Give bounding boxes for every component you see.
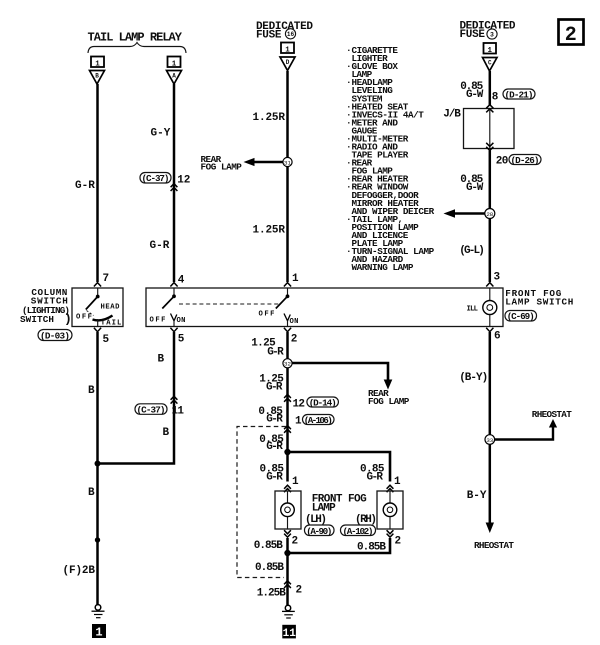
label FRONT FOG LAMP SWITCH <box>505 288 573 308</box>
svg-text:ON: ON <box>290 318 299 326</box>
svg-text:(A-106): (A-106) <box>304 415 333 426</box>
branch arrow to rear fog lamp <box>290 363 392 390</box>
svg-text:FOG LAMP: FOG LAMP <box>368 396 410 407</box>
svg-text:(A-90): (A-90) <box>306 526 332 537</box>
chevron out of switch col3 <box>284 328 291 332</box>
splice dot <box>95 537 100 542</box>
front fog lamp LH bulb <box>281 491 295 529</box>
wire label 0.85 G-R <box>259 434 284 453</box>
column switch box <box>72 288 123 327</box>
connector C-37 (lower) <box>135 404 167 416</box>
connector A-106 <box>303 415 335 426</box>
wire column 1 upper (terminal B to switch box) <box>96 84 99 282</box>
front fog lamp RH bulb <box>383 491 397 529</box>
RH lamp return wire <box>290 538 390 553</box>
page number box 2 <box>559 20 584 48</box>
svg-text:G-R: G-R <box>367 472 384 484</box>
connector C-69 <box>505 311 537 323</box>
svg-text:7: 7 <box>103 273 110 285</box>
svg-text:SWITCH: SWITCH <box>20 314 54 325</box>
svg-text:G-W: G-W <box>466 89 484 101</box>
svg-text:B: B <box>158 354 165 366</box>
svg-text:J/B: J/B <box>443 109 461 121</box>
svg-text:(A-102): (A-102) <box>343 526 374 537</box>
svg-text:RHEOSTAT: RHEOSTAT <box>474 540 514 551</box>
inline connector chevrons D-14 <box>284 394 291 401</box>
dashed bypass path <box>237 427 286 578</box>
svg-text:LAMP SWITCH: LAMP SWITCH <box>505 296 573 307</box>
connector chevron into switch <box>94 283 101 287</box>
svg-text:16: 16 <box>287 31 295 38</box>
wire through J/B <box>489 109 491 149</box>
chevron out of switch col2 <box>170 328 177 332</box>
svg-text:G-W: G-W <box>466 182 484 194</box>
svg-text:TAIL: TAIL <box>101 319 122 327</box>
svg-text:WARNING LAMP: WARNING LAMP <box>352 262 414 273</box>
wire column 3 to ground <box>286 538 289 605</box>
label REAR FOG LAMP <box>201 154 243 173</box>
branch arrow to rheostat <box>492 419 557 440</box>
connector chevron into switch <box>486 283 493 287</box>
wire column 5 upper (fuse 3 down) <box>489 71 492 105</box>
svg-text:OFF: OFF <box>150 317 166 325</box>
connector A-102 <box>341 525 376 537</box>
svg-text:(G-L): (G-L) <box>459 245 485 257</box>
svg-text:20: 20 <box>496 156 509 168</box>
wire label 1.25 G-R <box>259 374 284 394</box>
connector D-21 <box>503 89 535 100</box>
svg-text:1: 1 <box>488 47 493 55</box>
connector C-37 (upper) <box>140 173 171 185</box>
connector A-90 <box>305 525 335 537</box>
inline connector chevrons <box>284 581 291 588</box>
svg-text:3: 3 <box>490 32 494 39</box>
svg-text:28: 28 <box>486 211 493 218</box>
svg-text:(D-14): (D-14) <box>309 397 337 408</box>
svg-text:(LH): (LH) <box>305 514 327 526</box>
svg-text:1.25R: 1.25R <box>253 112 286 124</box>
svg-text:11: 11 <box>172 406 185 418</box>
svg-text:4: 4 <box>178 275 185 287</box>
arrowhead to rheostat (down) <box>486 523 494 534</box>
svg-text:OFF: OFF <box>259 311 275 319</box>
label DEDICATED FUSE 16 <box>256 21 313 42</box>
wire label 0.85 G-W <box>460 81 483 101</box>
ground reference box 1 <box>92 624 106 640</box>
svg-text:5: 5 <box>103 334 110 346</box>
svg-text:0.85B: 0.85B <box>255 562 284 574</box>
arrow to REAR FOG LAMP <box>244 158 285 166</box>
svg-text:FUSE: FUSE <box>256 30 282 42</box>
branch wire to RH lamp <box>288 452 391 482</box>
chevron out of switch col5 <box>486 328 493 332</box>
wire label 1.25 G-R <box>251 338 284 359</box>
connector D-14 <box>307 397 339 408</box>
svg-text:1.25B: 1.25B <box>257 588 286 600</box>
inline connector chevrons <box>171 184 178 191</box>
ground reference box 11 <box>282 625 296 640</box>
chevron out of column switch <box>94 328 101 332</box>
svg-text:G-R: G-R <box>266 414 283 426</box>
svg-text:1: 1 <box>172 60 177 68</box>
svg-text:FOG LAMP: FOG LAMP <box>201 162 243 173</box>
svg-text:0.85B: 0.85B <box>254 540 283 552</box>
splice node 31 <box>283 157 292 166</box>
connector chevron into switch <box>170 283 177 287</box>
svg-text:B-Y: B-Y <box>467 490 487 502</box>
svg-text:31: 31 <box>284 159 291 166</box>
svg-text:A: A <box>172 73 176 80</box>
labels OFF ON <box>150 317 186 326</box>
svg-text:G-R: G-R <box>266 472 283 484</box>
wire column 5 middle <box>489 151 492 283</box>
chevrons at J/B entry <box>486 105 493 113</box>
front fog lamp LH box <box>275 491 301 529</box>
svg-text:G-R: G-R <box>266 382 283 394</box>
terminal B (tail lamp relay, left) <box>90 57 105 85</box>
svg-text:(F)2B: (F)2B <box>63 565 96 577</box>
svg-text:(D-03): (D-03) <box>40 331 70 342</box>
labels OFF ON <box>259 311 299 327</box>
wire column 1 lower (switch to ground) <box>96 332 99 605</box>
svg-text:(RH): (RH) <box>355 514 377 526</box>
svg-text:B: B <box>163 427 170 439</box>
illumination lamp ILL <box>467 288 497 327</box>
svg-text:1: 1 <box>394 476 401 488</box>
splice node 32 <box>283 359 292 368</box>
ground symbol <box>92 605 105 618</box>
svg-text:(B-Y): (B-Y) <box>459 372 488 384</box>
front fog lamp switch box <box>146 288 503 327</box>
svg-text:2: 2 <box>296 585 303 597</box>
svg-text:C: C <box>488 60 492 67</box>
svg-text:12: 12 <box>177 175 190 187</box>
svg-text:G-R: G-R <box>266 441 283 453</box>
chevrons into RH lamp <box>387 485 394 492</box>
svg-text:(C-37): (C-37) <box>137 405 166 416</box>
wire column 5 lower (switch to rheostat) <box>489 332 492 523</box>
label FRONT FOG LAMP <box>312 494 367 515</box>
inline connector chevrons A-106 <box>284 426 291 433</box>
svg-text:33: 33 <box>486 437 493 444</box>
switch contact 2 (pin 1-2) <box>276 288 291 327</box>
wire column 2 upper (terminal A to switch box) <box>173 84 176 282</box>
svg-text:D: D <box>286 59 290 66</box>
junction block box <box>464 109 515 149</box>
svg-text:(D-26): (D-26) <box>511 155 540 166</box>
terminal D (dedicated fuse 16) <box>280 43 295 71</box>
inline connector chevrons <box>171 396 178 403</box>
svg-text:G-R: G-R <box>75 180 95 192</box>
ground symbol <box>282 605 295 618</box>
wire column 3 lower (switch down to lamps) <box>286 332 289 482</box>
svg-text:G-Y: G-Y <box>151 128 171 140</box>
svg-text:6: 6 <box>494 331 501 343</box>
chevrons into LH lamp <box>284 485 291 492</box>
svg-text:2: 2 <box>565 24 577 47</box>
wire label 0.85 G-W <box>460 174 483 194</box>
svg-text:1: 1 <box>95 60 100 68</box>
svg-text:G-R: G-R <box>267 347 284 359</box>
svg-text:(C-37): (C-37) <box>142 173 170 184</box>
svg-text:1: 1 <box>295 416 302 428</box>
svg-text:1.25R: 1.25R <box>253 225 286 237</box>
splice node 33 <box>485 435 495 445</box>
chevrons at J/B exit <box>486 143 493 151</box>
junction of column 2 wire <box>95 461 101 467</box>
svg-text:(D-21): (D-21) <box>505 89 534 100</box>
front fog lamp RH box <box>377 491 403 529</box>
svg-text:1: 1 <box>285 46 290 54</box>
svg-text:B: B <box>88 487 95 499</box>
terminal A (tail lamp relay, right) <box>167 57 182 85</box>
column switch (lighting switch) label <box>20 287 72 327</box>
svg-text:B: B <box>88 385 95 397</box>
svg-text:(C-69): (C-69) <box>507 311 535 322</box>
connector D-03 <box>38 330 72 342</box>
svg-text:HEAD: HEAD <box>101 304 121 312</box>
svg-text:1: 1 <box>292 273 299 285</box>
wire label 0.85 G-R <box>258 406 283 426</box>
brace under TAIL LAMP RELAY <box>88 43 186 54</box>
connector chevron into switch <box>284 283 291 287</box>
svg-text:32: 32 <box>284 361 291 368</box>
connector D-26 <box>509 155 541 166</box>
svg-text:): ) <box>64 312 72 327</box>
svg-text:FUSE: FUSE <box>460 29 486 41</box>
wire label 0.85 G-R (LH) <box>260 464 285 484</box>
svg-text:OFF: OFF <box>76 314 92 322</box>
svg-text:1: 1 <box>95 626 102 640</box>
svg-text:5: 5 <box>178 334 185 346</box>
svg-text:RHEOSTAT: RHEOSTAT <box>532 409 572 420</box>
arrow to rear window defogger list <box>444 209 486 218</box>
svg-text:12: 12 <box>293 399 306 411</box>
fuse load list <box>346 45 435 273</box>
chevrons out of LH lamp <box>284 530 291 537</box>
switch position labels OFF HEAD TAIL <box>76 304 121 328</box>
svg-text:8: 8 <box>492 92 499 104</box>
svg-text:3: 3 <box>494 272 501 284</box>
switch contact 1 (pin 4-5) <box>162 288 177 327</box>
wire column 2 lower (switch down then into column 1) <box>98 332 175 464</box>
splice node 28 <box>485 209 495 219</box>
junction to RH lamp branch <box>284 449 290 455</box>
svg-text:ON: ON <box>177 317 186 325</box>
svg-text:ILL: ILL <box>467 305 479 313</box>
terminal C (dedicated fuse 3) <box>483 43 498 71</box>
chevrons out of RH lamp <box>387 530 394 537</box>
svg-text:2: 2 <box>395 536 402 548</box>
column switch contact and lever <box>86 288 113 327</box>
mechanical link dashed line <box>179 303 281 305</box>
svg-text:1: 1 <box>292 476 299 488</box>
svg-text:LAMP: LAMP <box>312 503 336 515</box>
svg-text:TAIL LAMP RELAY: TAIL LAMP RELAY <box>88 31 183 45</box>
junction of RH return <box>284 550 290 556</box>
svg-text:2: 2 <box>292 536 299 548</box>
svg-text:G-R: G-R <box>150 240 170 252</box>
label REAR FOG LAMP <box>368 388 410 407</box>
svg-text:11: 11 <box>283 628 297 640</box>
wire label 0.85 G-R (RH) <box>360 464 385 484</box>
label DEDICATED FUSE 3 <box>460 21 516 42</box>
svg-text:2: 2 <box>291 334 298 346</box>
wire column 3 upper (fuse 16 down) <box>286 71 289 282</box>
svg-text:B: B <box>95 73 99 80</box>
